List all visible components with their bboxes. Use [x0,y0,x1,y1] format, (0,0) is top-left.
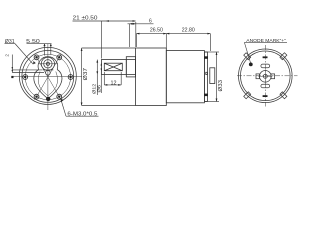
svg-text:2: 2 [5,54,10,57]
svg-text:6-M3.0*0.5: 6-M3.0*0.5 [67,112,97,118]
svg-text:22.80: 22.80 [182,28,195,34]
svg-text:Ø31: Ø31 [5,39,15,45]
svg-text:12: 12 [111,80,117,86]
svg-text:6: 6 [149,19,152,25]
svg-text:5.50: 5.50 [26,39,40,45]
svg-text:ANODE MARK“+”: ANODE MARK“+” [246,38,286,44]
svg-text:Ø33: Ø33 [218,80,224,92]
svg-text:Ø37: Ø37 [83,68,89,81]
svg-text:26.50: 26.50 [150,28,163,34]
svg-text:Ø6: Ø6 [97,84,102,92]
svg-text:21 ±0.50: 21 ±0.50 [73,15,98,21]
